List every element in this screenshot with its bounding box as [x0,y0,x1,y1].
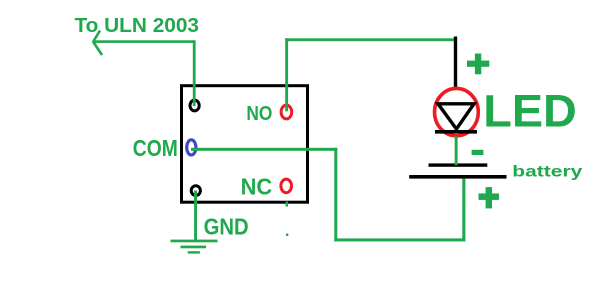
svg-text:GND: GND [204,213,249,239]
svg-text:LED: LED [483,85,577,136]
wire battery down [462,179,465,242]
terminal NO (red) [281,105,292,119]
wire top horizontal NO to LED [285,38,456,41]
wire ULN vertical down to coil terminal [193,40,196,105]
stray dot [286,234,288,237]
wire into coil terminal [193,98,196,106]
wire black down to LED anode [454,37,457,89]
battery plate long (bottom) [409,175,506,179]
coil terminal (top-left, black) [190,100,199,111]
wire LED cathode to battery [455,136,458,165]
plus sign bottom [479,187,500,208]
LED diode triangle [438,104,474,129]
wire GND down [194,191,197,243]
minus sign [472,150,484,155]
wire NO up [285,38,288,111]
svg-text:To ULN 2003: To ULN 2003 [75,15,200,37]
battery plate short (top) [429,163,488,166]
svg-text:NC: NC [241,174,273,200]
terminal NC (red) [281,179,292,193]
wire bottom horizontal [334,238,465,241]
wire arrow horizontal to ULN [93,40,195,43]
ground symbol [171,240,218,254]
wire COM vertical down [334,148,337,242]
relay box [182,86,308,203]
svg-text:NO: NO [246,103,272,125]
svg-text:battery: battery [512,164,582,181]
terminal GND (bottom-left, black) [191,186,200,196]
LED cathode bar [435,130,477,134]
LED circle (red) [435,88,479,135]
svg-text:COM: COM [133,135,178,161]
terminal COM (blue) [187,140,196,155]
plus sign top [467,54,489,75]
wire COM horizontal [191,148,337,151]
stub below NC terminal [286,202,289,207]
arrowhead [93,31,102,56]
